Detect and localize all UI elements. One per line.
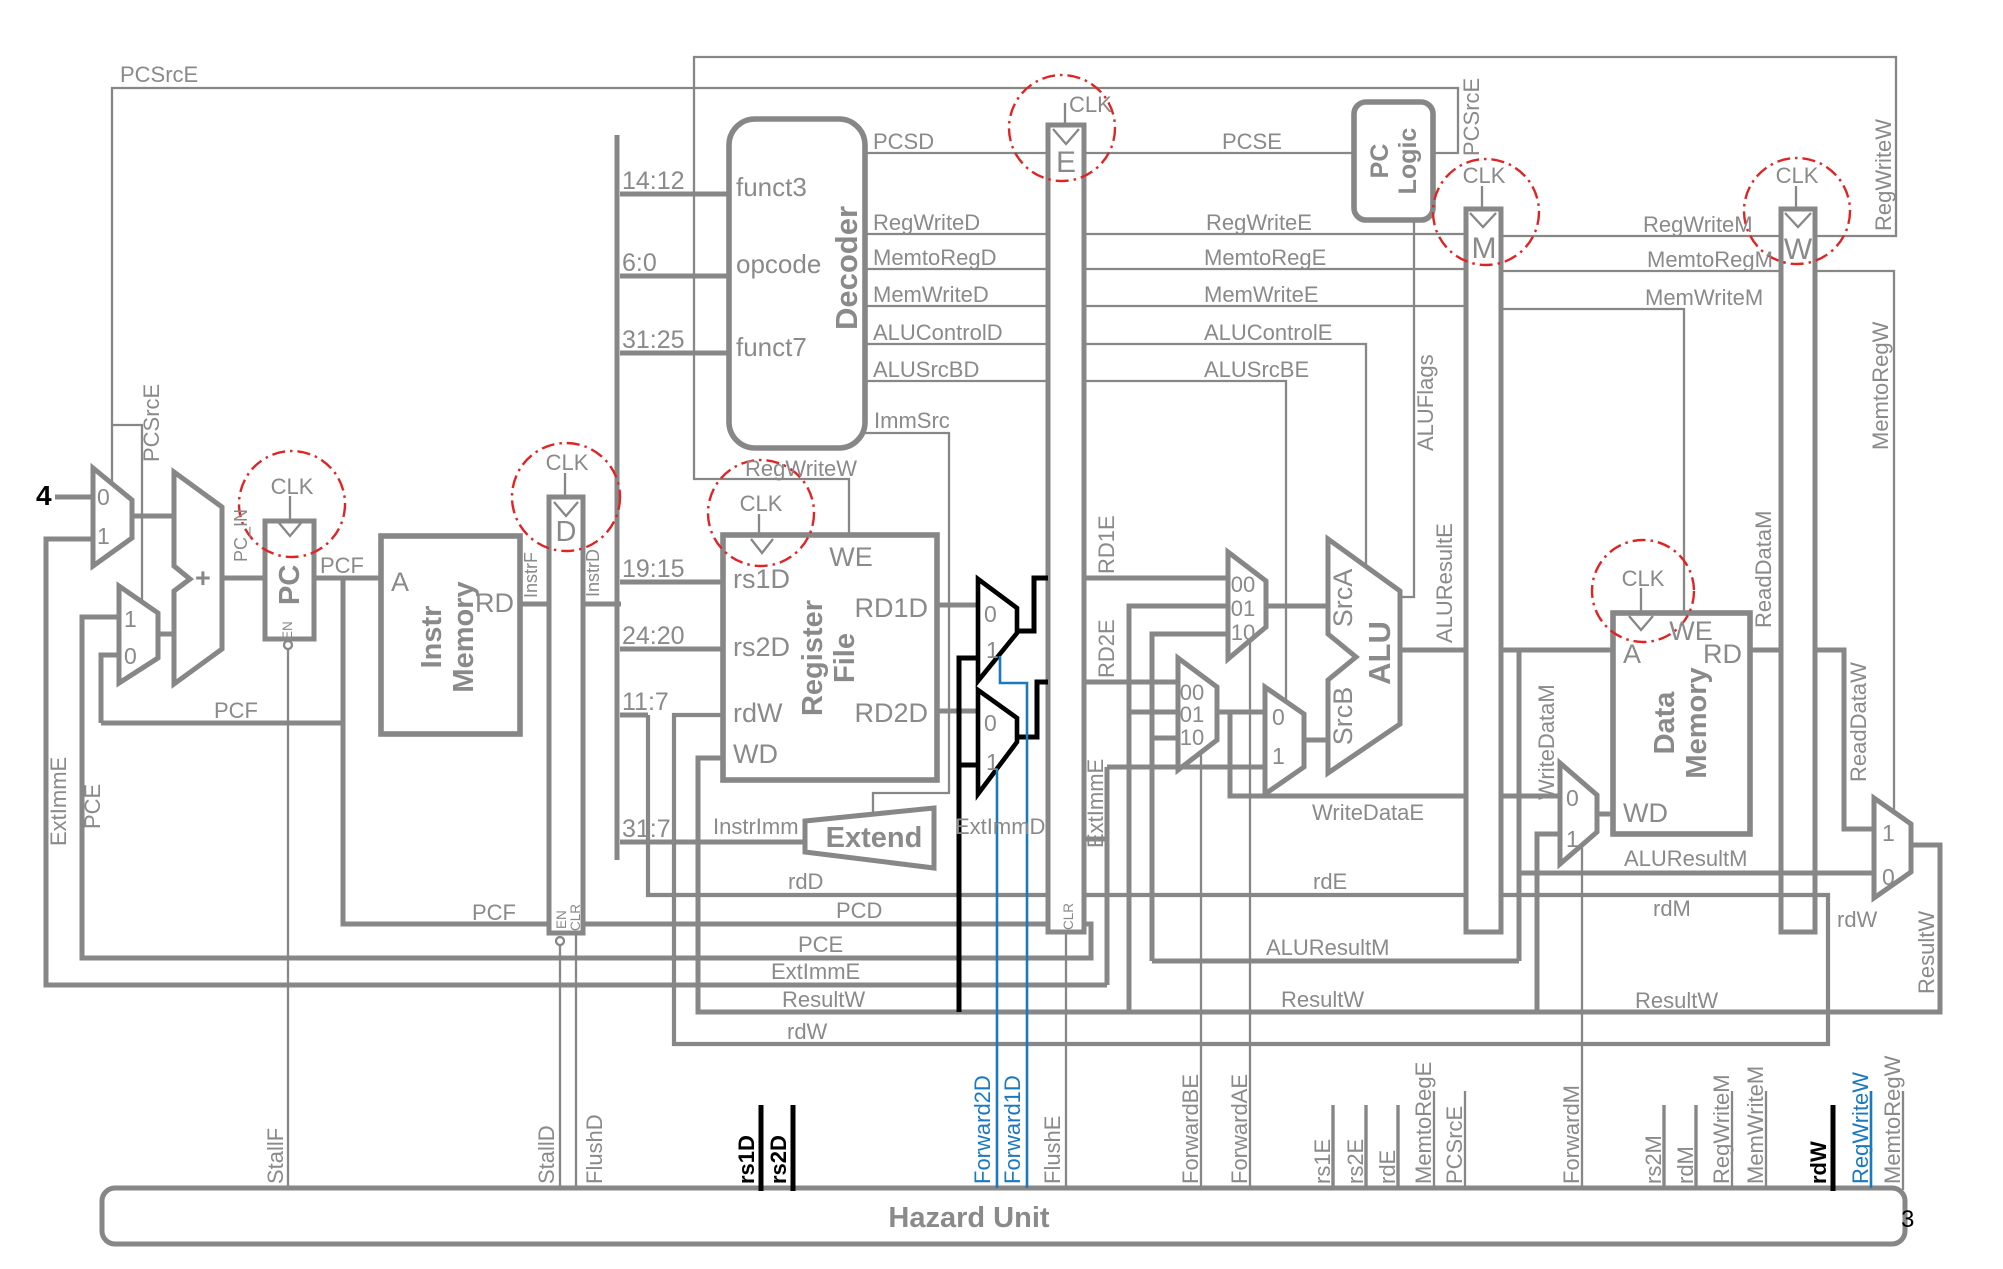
svg-text:WD: WD: [1623, 798, 1668, 828]
svg-text:rs2M: rs2M: [1641, 1135, 1666, 1184]
block Hazard Unit: [102, 1188, 1905, 1244]
wire RD1D Register File to forward mux 1: [937, 603, 978, 608]
svg-text:ResultW: ResultW: [1914, 911, 1939, 994]
wire PCSD Decoder to E register: [865, 152, 1048, 154]
mux branch target 1/0: [119, 586, 158, 683]
svg-text:1: 1: [97, 523, 110, 549]
svg-text:RegWriteM: RegWriteM: [1709, 1074, 1734, 1184]
svg-text:1: 1: [986, 749, 999, 775]
block PC Logic: [1354, 102, 1433, 220]
wire ALUResultM back to forwarding risers: [1152, 959, 1519, 964]
stub rs1E to Hazard Unit: [1331, 1105, 1334, 1190]
wire ALUResultM riser to SrcA mux input 10: [1152, 634, 1228, 961]
wire RegWriteW loop from W register to Register File WE: [694, 57, 1896, 535]
svg-text:funct7: funct7: [736, 332, 807, 362]
svg-text:ForwardBE: ForwardBE: [1178, 1074, 1203, 1184]
svg-text:PCSrcE: PCSrcE: [1459, 78, 1484, 156]
svg-text:RD1E: RD1E: [1094, 515, 1119, 574]
svg-text:WD: WD: [733, 739, 778, 769]
svg-text:File: File: [829, 633, 861, 683]
svg-text:CLK: CLK: [1463, 163, 1506, 188]
svg-text:RD: RD: [475, 588, 514, 618]
clk wire and triangle PC: [289, 496, 291, 523]
mux SrcB forwarding 00/01/10: [1178, 658, 1217, 770]
svg-text:MemtoRegE: MemtoRegE: [1204, 245, 1326, 270]
svg-text:rdE: rdE: [1313, 869, 1347, 894]
svg-text:ALUSrcBD: ALUSrcBD: [873, 357, 979, 382]
svg-text:StallD: StallD: [534, 1125, 559, 1184]
svg-text:00: 00: [1231, 572, 1255, 597]
wire ALUSrcB mux output to ALU: [1304, 738, 1328, 743]
wire StallF from PC enable to Hazard Unit: [287, 649, 289, 1188]
wire ALUFlags from ALU to PC Logic: [1400, 220, 1414, 597]
svg-text:A: A: [391, 567, 409, 597]
mux WriteData 0/1: [1560, 763, 1597, 864]
wire RegWriteE E register to M register: [1084, 233, 1466, 235]
wire MemWriteD Decoder to E register: [865, 305, 1048, 307]
wire PCF from PC register to Instr Memory A: [314, 576, 381, 581]
wire ResultW riser to SrcA mux input 01: [1129, 606, 1228, 1012]
svg-text:1: 1: [986, 637, 999, 663]
svg-text:RegWriteM: RegWriteM: [1643, 212, 1753, 237]
wire MemtoRegE E register to M register: [1084, 268, 1466, 270]
wire bus 19:15 to Register File rs1D: [620, 580, 723, 585]
svg-text:ResultW: ResultW: [1635, 988, 1718, 1013]
svg-text:PCE: PCE: [798, 932, 843, 957]
svg-text:CLR: CLR: [1061, 903, 1076, 930]
wire RD2E E register to SrcB mux input 00: [1084, 680, 1178, 685]
svg-text:MemWriteM: MemWriteM: [1743, 1066, 1768, 1184]
svg-text:PCSE: PCSE: [1222, 129, 1282, 154]
svg-text:RD2D: RD2D: [854, 698, 928, 728]
svg-text:WE: WE: [829, 542, 873, 572]
svg-text:1: 1: [1882, 820, 1895, 846]
stub RegWriteW blue to Hazard Unit: [1870, 1091, 1873, 1188]
svg-text:ALU: ALU: [1362, 621, 1397, 685]
wire PC_IN adder output to PC register: [222, 576, 265, 581]
svg-text:PCE: PCE: [80, 784, 105, 829]
clk circle E: [1009, 75, 1115, 181]
wire ALUResultM from M register to Data Memory A: [1501, 648, 1613, 653]
svg-text:PCF: PCF: [320, 553, 364, 578]
svg-text:PCF: PCF: [472, 900, 516, 925]
svg-text:ResultW: ResultW: [782, 987, 865, 1012]
pipeline register W: [1781, 209, 1815, 932]
svg-text:1: 1: [1272, 743, 1285, 769]
wire ExtImmE feedback to PCSrc mux input 1: [46, 539, 1107, 985]
svg-text:MemWriteD: MemWriteD: [873, 282, 989, 307]
wire ForwardBE from SrcB mux select to Hazard Unit: [1200, 753, 1202, 1188]
svg-text:ReadDataM: ReadDataM: [1751, 511, 1776, 628]
wire ALUControlE E register to ALU: [1084, 344, 1366, 565]
enable bubble D: [556, 937, 564, 945]
svg-text:ALUFlags: ALUFlags: [1413, 354, 1438, 451]
svg-text:rs1D: rs1D: [733, 564, 790, 594]
svg-text:MemtoRegW: MemtoRegW: [1868, 321, 1893, 450]
wire branch-target mux output to adder: [158, 632, 174, 637]
svg-text:0: 0: [1566, 785, 1579, 811]
svg-text:19:15: 19:15: [622, 555, 685, 583]
svg-text:ExtImmD: ExtImmD: [955, 814, 1045, 839]
wire ImmSrc Decoder to Extend: [865, 433, 949, 812]
svg-text:InstrD: InstrD: [583, 549, 603, 597]
svg-text:01: 01: [1231, 596, 1255, 621]
svg-text:ALUControlD: ALUControlD: [873, 320, 1003, 345]
mux PCSrc 0/1: [93, 468, 132, 566]
svg-text:Logic: Logic: [1394, 128, 1422, 195]
svg-text:rdE: rdE: [1375, 1150, 1400, 1184]
wire PCF feedback to branch-target mux input 0: [101, 655, 119, 723]
svg-text:rdW: rdW: [1837, 907, 1878, 932]
wire MemWriteM M register to Data Memory WE: [1501, 309, 1684, 613]
svg-text:rdW: rdW: [1806, 1141, 1831, 1184]
svg-text:E: E: [1056, 146, 1076, 179]
svg-text:Register: Register: [797, 600, 829, 716]
clk wire and triangle Register File: [758, 514, 760, 537]
wire bus 24:20 to Register File rs2D: [620, 647, 723, 652]
svg-text:1: 1: [124, 606, 137, 632]
clk circle Data Memory: [1592, 540, 1694, 642]
svg-text:rs1D: rs1D: [734, 1135, 759, 1184]
pipeline register D: [549, 497, 583, 933]
svg-text:RegWriteW: RegWriteW: [1871, 119, 1896, 231]
mux forward 1 (decode RD1): [978, 579, 1017, 681]
svg-text:3: 3: [1901, 1206, 1914, 1233]
svg-text:ALUControlE: ALUControlE: [1204, 320, 1332, 345]
svg-text:ForwardAE: ForwardAE: [1227, 1074, 1252, 1184]
svg-text:PCF: PCF: [214, 698, 258, 723]
svg-text:ALUResultM: ALUResultM: [1624, 846, 1747, 871]
stub MemtoRegW to Hazard Unit: [1902, 1091, 1904, 1190]
clk circle W: [1744, 158, 1850, 264]
wire ForwardM from WriteData mux select to Hazard Unit: [1581, 846, 1583, 1188]
wire RD1E E register to SrcA mux input 00: [1084, 576, 1228, 581]
svg-text:0: 0: [984, 601, 997, 627]
wire ReadDataM Data Memory RD to W register: [1750, 648, 1781, 653]
svg-text:RD2E: RD2E: [1094, 619, 1119, 678]
wire bus 6:0 to Decoder opcode: [620, 274, 729, 279]
svg-text:PC_IN: PC_IN: [231, 509, 252, 562]
adder PC plus 4: [174, 472, 222, 684]
stub PCSrcE to Hazard Unit: [1464, 1091, 1466, 1190]
svg-text:Decoder: Decoder: [829, 206, 864, 330]
clk circle D: [512, 443, 620, 551]
wire ResultW branch up to WriteData mux input 1: [1537, 834, 1560, 1012]
wire Forward2D blue from forward mux 2 select to Hazard Unit: [996, 769, 999, 1188]
wire ALUResultE ALU to M register: [1400, 648, 1466, 653]
wire InstrF from Instr Memory RD to D register: [520, 602, 549, 607]
block Extend: [805, 808, 934, 868]
svg-text:InstrImm: InstrImm: [713, 814, 799, 839]
clk wire and triangle M: [1481, 186, 1483, 211]
stub MemtoRegE to Hazard Unit: [1433, 1091, 1435, 1190]
svg-text:4: 4: [36, 480, 52, 511]
wire InstrD from D register to instruction bus: [583, 602, 621, 607]
wire RegWriteM M register to W register: [1501, 235, 1781, 237]
wire MemtoRegD Decoder to E register: [865, 268, 1048, 270]
wire PCF branch down to D register input: [343, 578, 549, 924]
stub rdW black to Hazard Unit: [1831, 1105, 1836, 1191]
svg-text:CLK: CLK: [271, 474, 314, 499]
svg-text:0: 0: [124, 643, 137, 669]
stub rs2D black to Hazard Unit: [791, 1105, 796, 1191]
svg-text:10: 10: [1231, 620, 1255, 645]
svg-text:0: 0: [97, 484, 110, 510]
clk wire and triangle Data Memory: [1640, 588, 1642, 615]
svg-text:MemtoRegD: MemtoRegD: [873, 245, 996, 270]
svg-text:M: M: [1472, 232, 1497, 265]
wire rdM from M register through W register then down: [674, 715, 1828, 1044]
block Data Memory: [1613, 613, 1750, 834]
svg-text:FlushD: FlushD: [582, 1114, 607, 1184]
stub rdE to Hazard Unit: [1396, 1105, 1399, 1190]
svg-text:ExtImmE: ExtImmE: [1083, 759, 1108, 848]
wire ResultW black riser to decode forward muxes: [959, 658, 978, 1012]
wire ForwardAE from SrcA mux select to Hazard Unit: [1249, 641, 1251, 1188]
svg-text:RD1D: RD1D: [854, 593, 928, 623]
wire FlushD from D register clear to Hazard Unit: [575, 933, 577, 1188]
stub rs2M to Hazard Unit: [1662, 1105, 1665, 1190]
wire bus 11:7 tap: [620, 713, 648, 718]
svg-text:PCSrcE: PCSrcE: [139, 384, 164, 462]
svg-text:CLK: CLK: [740, 491, 783, 516]
svg-text:rs2D: rs2D: [766, 1135, 791, 1184]
block Instr Memory: [381, 536, 520, 734]
wire RegWriteD Decoder to E register: [865, 233, 1048, 235]
svg-text:PC: PC: [274, 565, 306, 605]
svg-text:opcode: opcode: [736, 249, 821, 279]
svg-text:Memory: Memory: [1681, 667, 1713, 778]
clk wire and triangle W: [1795, 186, 1797, 211]
wire ALUSrcBE E register to ALUSrcB mux select: [1084, 381, 1286, 701]
svg-text:rs1E: rs1E: [1310, 1139, 1335, 1184]
clk circle PC: [239, 451, 345, 557]
svg-text:EN: EN: [280, 621, 295, 640]
stub rs2E to Hazard Unit: [1364, 1105, 1367, 1190]
svg-text:MemtoRegM: MemtoRegM: [1647, 247, 1773, 272]
register PC: [265, 521, 314, 639]
svg-text:SrcA: SrcA: [1328, 569, 1358, 628]
svg-text:Forward1D: Forward1D: [1000, 1075, 1025, 1184]
svg-text:PCD: PCD: [836, 898, 882, 923]
wire MemtoRegM M register to W register: [1501, 270, 1781, 272]
svg-text:rdD: rdD: [788, 869, 823, 894]
stub rs1D black to Hazard Unit: [759, 1105, 764, 1191]
wire ALUResultM to Result mux input 0: [1519, 871, 1874, 876]
wire ResultW from Result mux output looping back to Register File WD: [698, 758, 1940, 1012]
wire forward mux 1 output to E register RD1E: [1017, 578, 1048, 631]
wire WriteData mux output to Data Memory WD: [1597, 812, 1613, 817]
svg-text:1: 1: [1566, 826, 1579, 852]
pipeline register E: [1048, 125, 1084, 932]
svg-text:Instr: Instr: [416, 606, 448, 669]
svg-text:0: 0: [1882, 864, 1895, 890]
svg-text:PCSD: PCSD: [873, 129, 934, 154]
svg-text:rs2D: rs2D: [733, 632, 790, 662]
svg-text:rdW: rdW: [733, 698, 783, 728]
svg-text:ForwardM: ForwardM: [1559, 1085, 1584, 1184]
svg-text:EN: EN: [554, 910, 569, 929]
svg-text:rdW: rdW: [787, 1019, 828, 1044]
svg-text:SrcB: SrcB: [1328, 687, 1358, 746]
wire WriteDataE from SrcB line down and to M register: [1230, 712, 1466, 796]
svg-text:ResultW: ResultW: [1281, 987, 1364, 1012]
wire PCE loop from E register to branch-target mux input 1: [82, 617, 1091, 958]
wire PCD from D register to E register: [583, 922, 1048, 927]
svg-text:6:0: 6:0: [622, 249, 657, 277]
wire ResultW riser branch to SrcB mux input 01: [1129, 710, 1178, 715]
svg-text:RegWriteE: RegWriteE: [1206, 210, 1312, 235]
wire ALUControlD Decoder to E register: [865, 343, 1048, 345]
svg-text:24:20: 24:20: [622, 622, 685, 650]
wire forward mux 2 output to E register RD2E: [1017, 682, 1048, 737]
svg-text:31:7: 31:7: [622, 815, 671, 843]
svg-text:14:12: 14:12: [622, 167, 685, 195]
svg-text:CLK: CLK: [546, 450, 589, 475]
svg-text:CLK: CLK: [1776, 163, 1819, 188]
svg-text:W: W: [1784, 233, 1813, 266]
wire black branch to forward mux 2 input 1: [959, 763, 978, 768]
wire PCSrc mux output to adder: [132, 514, 174, 519]
svg-text:MemWriteM: MemWriteM: [1645, 285, 1763, 310]
svg-text:PC: PC: [1366, 144, 1394, 179]
wire bus 31:7 InstrImm to Extend: [620, 840, 805, 845]
pipeline register M: [1466, 209, 1501, 932]
wire constant 4 into PCSrc mux input 0: [55, 495, 93, 500]
svg-text:ExtImmE: ExtImmE: [46, 757, 71, 846]
svg-text:Memory: Memory: [448, 581, 480, 692]
wire SrcA mux output to ALU: [1266, 604, 1328, 609]
wire PCF branch left at y=723: [101, 721, 343, 726]
svg-text:StallF: StallF: [263, 1128, 288, 1184]
mux forward 2 (decode RD2): [978, 690, 1017, 794]
wire ALUResultM branch down: [1517, 650, 1522, 961]
svg-text:funct3: funct3: [736, 172, 807, 202]
stub RegWriteM to Hazard Unit: [1731, 1091, 1733, 1190]
wire PCSE E register to PC Logic: [1084, 152, 1354, 154]
mux ALUSrcB 0/1: [1265, 687, 1304, 794]
wire SrcB mux output to ALUSrcB mux input 0: [1217, 710, 1265, 715]
wire ALUSrcBD Decoder to E register: [865, 380, 1048, 382]
wire MemWriteE E register to M register: [1084, 305, 1466, 307]
wire PCSrcE branch to branch-target mux select: [112, 425, 142, 602]
svg-text:Extend: Extend: [826, 822, 923, 854]
svg-text:ExtImmE: ExtImmE: [771, 959, 860, 984]
svg-text:CLK: CLK: [1622, 566, 1665, 591]
svg-text:CLK: CLK: [1069, 92, 1112, 117]
wire ReadDataW from W register to Result mux input 1: [1815, 650, 1874, 829]
svg-text:ALUResultE: ALUResultE: [1432, 523, 1457, 643]
svg-text:+: +: [195, 563, 211, 593]
enable bubble PC: [284, 641, 292, 649]
wire PCSrcE loop from PC Logic to PCSrc mux select: [112, 88, 1458, 484]
svg-text:D: D: [556, 516, 577, 548]
svg-text:MemtoRegW: MemtoRegW: [1880, 1055, 1905, 1184]
wire rdE from E register to M register: [1084, 893, 1466, 897]
svg-text:01: 01: [1180, 702, 1204, 727]
svg-text:ALUResultM: ALUResultM: [1266, 935, 1389, 960]
wire ExtImmE riser from E register to ALUSrcB mux input 1: [1084, 837, 1107, 842]
block Register File: [723, 535, 937, 780]
svg-text:RegWriteW: RegWriteW: [745, 456, 857, 481]
svg-text:WriteDataM: WriteDataM: [1534, 684, 1559, 800]
op ALU: [1328, 539, 1400, 773]
wire bus 31:25 to Decoder funct7: [620, 351, 729, 356]
wire bus 14:12 to Decoder funct3: [620, 192, 729, 197]
wire RD2D Register File to forward mux 2: [937, 709, 978, 714]
svg-text:PCSrcE: PCSrcE: [120, 62, 198, 87]
svg-text:Hazard Unit: Hazard Unit: [888, 1202, 1049, 1234]
svg-text:WriteDataE: WriteDataE: [1312, 800, 1424, 825]
svg-text:rs2E: rs2E: [1343, 1139, 1368, 1184]
svg-text:rdM: rdM: [1673, 1146, 1698, 1184]
svg-text:RegWriteW: RegWriteW: [1848, 1072, 1873, 1184]
wire WriteDataM from M register to WriteData mux input 0: [1501, 794, 1560, 799]
wire Forward1D blue from forward mux 1 select to Hazard Unit: [1000, 656, 1027, 1188]
clk wire and triangle E: [1064, 103, 1066, 126]
mux SrcA forwarding 00/01/10: [1228, 552, 1266, 659]
mux Result 1/0: [1874, 798, 1911, 898]
svg-text:RD: RD: [1703, 639, 1742, 669]
instruction bus vertical: [615, 135, 620, 860]
svg-text:FlushE: FlushE: [1040, 1116, 1065, 1184]
svg-text:ALUSrcBE: ALUSrcBE: [1204, 357, 1309, 382]
svg-text:0: 0: [984, 710, 997, 736]
stub MemWriteM to Hazard Unit: [1765, 1091, 1767, 1190]
svg-text:Forward2D: Forward2D: [970, 1075, 995, 1184]
clk circle M: [1433, 159, 1539, 265]
svg-text:ReadDataW: ReadDataW: [1846, 662, 1871, 782]
svg-text:A: A: [1623, 639, 1641, 669]
svg-text:InstrF: InstrF: [521, 552, 541, 598]
stub rdM to Hazard Unit: [1694, 1105, 1697, 1190]
clk wire and triangle D: [564, 473, 566, 499]
svg-text:MemtoRegE: MemtoRegE: [1411, 1062, 1436, 1184]
clk circle Register File: [708, 460, 814, 566]
svg-text:PCSrcE: PCSrcE: [1442, 1106, 1467, 1184]
svg-text:MemWriteE: MemWriteE: [1204, 282, 1319, 307]
wire MemtoRegW from W register down to Result mux select: [1815, 271, 1894, 812]
svg-text:rdM: rdM: [1653, 896, 1691, 921]
svg-text:Data: Data: [1649, 691, 1681, 755]
wire StallD from D register enable to Hazard Unit: [559, 946, 561, 1188]
svg-text:CLR: CLR: [568, 904, 583, 931]
svg-text:31:25: 31:25: [622, 326, 685, 354]
svg-text:ImmSrc: ImmSrc: [874, 408, 950, 433]
block Decoder: [729, 119, 865, 448]
svg-text:11:7: 11:7: [622, 688, 669, 716]
svg-text:0: 0: [1272, 704, 1285, 730]
wire rdD from 11:7 tap down to E register: [648, 715, 1048, 895]
svg-text:10: 10: [1180, 725, 1204, 750]
wire ALUResultM riser branch to SrcB mux input 10: [1152, 736, 1178, 741]
svg-text:RegWriteD: RegWriteD: [873, 210, 980, 235]
wire FlushE from E register clear to Hazard Unit: [1065, 932, 1067, 1188]
